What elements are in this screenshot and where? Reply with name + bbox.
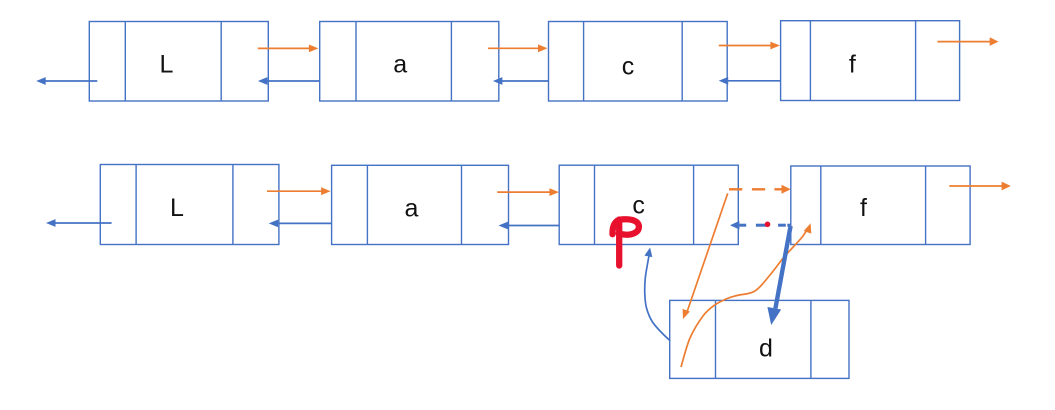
node f (top row) box bbox=[781, 21, 960, 101]
next arrow out of f (top row, orange, right) bbox=[937, 37, 998, 46]
svg-text:a: a bbox=[393, 50, 407, 78]
next arrow L to a (top row, orange) bbox=[258, 45, 319, 53]
svg-text:c: c bbox=[622, 53, 635, 81]
old next link c to f (bottom row, orange dashed arrow) bbox=[729, 185, 791, 194]
svg-text:c: c bbox=[632, 192, 645, 220]
svg-text:d: d bbox=[759, 335, 773, 363]
svg-text:f: f bbox=[849, 50, 856, 78]
new link arrow d.prev to c (blue curved arrow) bbox=[644, 247, 670, 341]
red breakpoint dot on dashed prev link bbox=[765, 222, 771, 228]
node a (top row) box bbox=[320, 22, 499, 102]
node d (inserted node) box bbox=[670, 300, 849, 378]
prev arrow a to L (bottom row, blue) bbox=[269, 220, 332, 228]
prev arrow a to L (top row, blue) bbox=[258, 77, 320, 85]
svg-text:L: L bbox=[159, 50, 173, 78]
next arrow out of f (bottom row, orange, right) bbox=[949, 182, 1011, 191]
new link arrow f.prev to d (thick blue arrow) bbox=[764, 226, 790, 326]
prev arrow c to a (bottom row, blue) bbox=[499, 222, 560, 230]
svg-text:L: L bbox=[170, 194, 184, 222]
new link arrow d.next to f (orange curved S arrow) bbox=[681, 222, 814, 367]
svg-text:a: a bbox=[404, 194, 418, 222]
node L (top row) box with prev/data/next cells bbox=[89, 22, 268, 102]
prev arrow c to a (top row, blue) bbox=[493, 77, 549, 85]
next arrow a to c (bottom row, orange) bbox=[497, 188, 559, 196]
prev arrow out of L to NULL (top row, blue, left) bbox=[36, 77, 97, 85]
node L (bottom row) box bbox=[100, 165, 279, 245]
node a (bottom row) box bbox=[332, 165, 509, 244]
prev arrow f to c (top row, blue) bbox=[719, 77, 781, 85]
next arrow a to c (top row, orange) bbox=[488, 44, 548, 52]
node c (bottom row) box bbox=[559, 165, 738, 244]
new link arrow c.next to d (orange diagonal) bbox=[679, 193, 727, 320]
next arrow c to f (top row, orange) bbox=[719, 42, 780, 50]
next arrow L to a (bottom row, orange) bbox=[267, 187, 331, 195]
svg-text:f: f bbox=[860, 194, 867, 222]
red handwritten pointer marker p at node c bbox=[612, 219, 638, 265]
node f (bottom row) box bbox=[791, 166, 970, 245]
old prev link f to c (bottom row, blue dashed arrow) bbox=[730, 221, 791, 230]
prev arrow out of L to NULL (bottom row, blue, left) bbox=[46, 219, 112, 227]
node c (top row) box bbox=[549, 22, 728, 102]
